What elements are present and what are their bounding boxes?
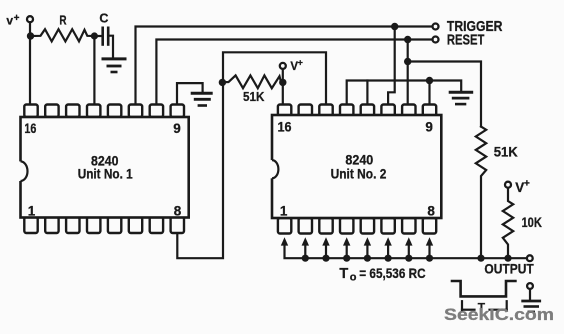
- svg-text:1: 1: [280, 203, 288, 218]
- svg-text:+: +: [524, 179, 530, 190]
- svg-text:10K: 10K: [522, 214, 542, 230]
- svg-text:8: 8: [174, 204, 182, 219]
- svg-text:51K: 51K: [494, 144, 518, 160]
- svg-text:+: +: [298, 57, 303, 67]
- svg-text:v: v: [6, 13, 13, 27]
- svg-text:8240: 8240: [345, 152, 373, 168]
- svg-text:SeekIC.com: SeekIC.com: [444, 306, 554, 324]
- svg-text:o: o: [350, 272, 357, 284]
- svg-text:R: R: [59, 13, 66, 27]
- svg-text:V: V: [515, 180, 524, 195]
- svg-text:RESET: RESET: [447, 32, 485, 48]
- svg-text:8: 8: [427, 203, 435, 218]
- svg-text:16: 16: [24, 121, 36, 136]
- svg-text:9: 9: [173, 121, 181, 136]
- svg-text:T: T: [339, 266, 348, 282]
- svg-text:+: +: [14, 13, 20, 24]
- svg-text:OUTPUT: OUTPUT: [484, 262, 534, 277]
- svg-text:16: 16: [278, 120, 292, 135]
- svg-text:C: C: [99, 12, 108, 26]
- svg-text:Unit No. 2: Unit No. 2: [331, 167, 387, 182]
- svg-text:Unit No. 1: Unit No. 1: [78, 167, 133, 182]
- svg-text:51K: 51K: [243, 89, 265, 104]
- svg-text:= 65,536 RC: = 65,536 RC: [359, 265, 425, 281]
- svg-text:1: 1: [28, 204, 36, 219]
- svg-text:9: 9: [425, 119, 433, 134]
